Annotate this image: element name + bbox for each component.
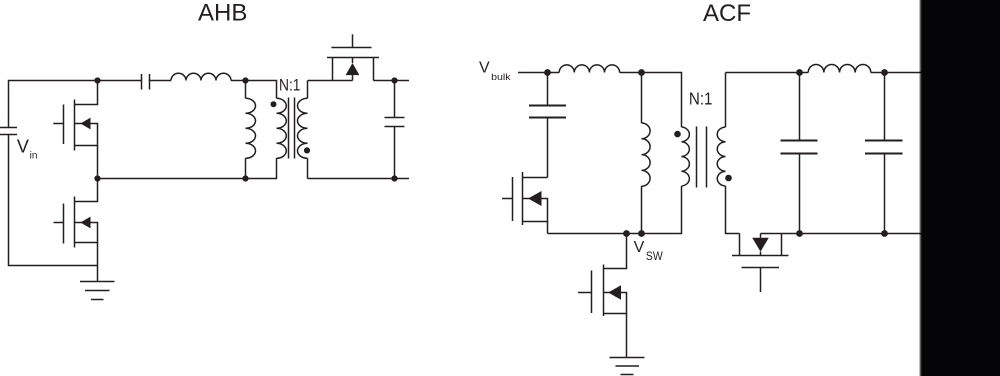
svg-text:bulk: bulk [491,72,511,83]
svg-text:N:1: N:1 [279,75,301,94]
svg-text:V: V [479,60,490,77]
svg-text:in: in [30,150,38,161]
svg-text:AHB: AHB [198,0,247,27]
svg-text:ACF: ACF [703,0,751,27]
svg-text:SW: SW [646,251,663,263]
svg-text:N:1: N:1 [689,89,713,109]
svg-text:V: V [634,239,645,256]
svg-text:V: V [17,137,29,157]
